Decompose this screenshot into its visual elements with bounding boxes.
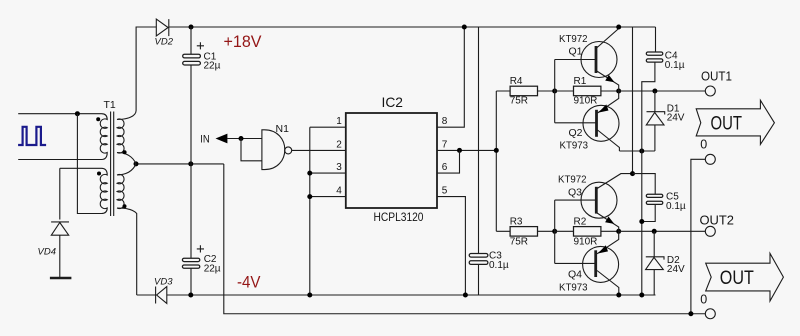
wire IC2 pin 7 bbox=[437, 149, 496, 151]
terminal 0 ch1 bbox=[700, 138, 715, 165]
wire IC2 pins 1-3-4 bus to -4V bbox=[309, 127, 311, 295]
wire -4V feed C4/C5 column bbox=[641, 151, 643, 295]
node junction pin7 / feed bus bbox=[494, 148, 499, 153]
transistor Q3 KT972 bbox=[558, 173, 633, 231]
svg-text:22µ: 22µ bbox=[204, 264, 221, 275]
svg-text:Q2: Q2 bbox=[569, 127, 583, 139]
zener diode D1 24V bbox=[646, 91, 685, 151]
svg-text:0: 0 bbox=[700, 292, 707, 306]
wire IC2 pin 3 bbox=[310, 172, 346, 174]
node junction D1 top bbox=[652, 89, 657, 94]
node B2 junction emitters ch2 bbox=[616, 229, 621, 234]
IC2 pin numbers right bbox=[442, 116, 448, 196]
node junction pin 8 line on +18V rail bbox=[462, 25, 467, 30]
svg-text:OUT: OUT bbox=[720, 268, 754, 289]
wire input line 2 bbox=[18, 159, 101, 161]
wire top +18V rail bbox=[136, 26, 655, 28]
svg-text:R4: R4 bbox=[510, 76, 523, 87]
wire VD4 branch bbox=[59, 168, 61, 277]
wire Q3 base bbox=[555, 199, 597, 201]
svg-text:910R: 910R bbox=[574, 237, 598, 248]
node A junction bases ch1 bbox=[552, 89, 557, 94]
svg-text:HCPL3120: HCPL3120 bbox=[374, 210, 424, 224]
svg-text:0.1µ: 0.1µ bbox=[489, 260, 509, 271]
wire base jumper ch1 bbox=[554, 60, 556, 123]
terminal 0 ch2 bbox=[700, 292, 715, 318]
svg-text:8: 8 bbox=[442, 116, 448, 127]
label +18V bbox=[224, 33, 262, 51]
svg-text:KT973: KT973 bbox=[560, 139, 589, 151]
svg-text:5: 5 bbox=[442, 186, 448, 197]
svg-text:KT972: KT972 bbox=[558, 173, 587, 185]
svg-text:75R: 75R bbox=[510, 95, 528, 106]
wire N1 output to IC2 pin 2 bbox=[292, 149, 346, 151]
capacitor C3 0.1u bbox=[469, 27, 509, 295]
logic gate N1 bbox=[262, 123, 292, 170]
node junction Q1 collector on +18V rail bbox=[616, 25, 621, 30]
IN arrow bbox=[216, 134, 228, 144]
svg-text:22µ: 22µ bbox=[204, 61, 221, 72]
svg-text:VD2: VD2 bbox=[155, 37, 174, 48]
wire -4V rail bbox=[137, 294, 656, 296]
wire N1 input jumper bbox=[241, 139, 262, 161]
resistor R3 75R bbox=[496, 216, 554, 247]
wire OUT1 node line bbox=[619, 90, 706, 92]
IC2 HCPL3120 bbox=[346, 94, 437, 224]
node junction input line 1 bbox=[75, 111, 80, 116]
svg-text:OUT1: OUT1 bbox=[701, 70, 732, 84]
transformer T1 bbox=[60, 27, 137, 296]
svg-text:0.1µ: 0.1µ bbox=[665, 60, 685, 71]
input square wave symbol bbox=[18, 127, 46, 145]
svg-text:0: 0 bbox=[700, 138, 707, 152]
OUT arrow ch1 bbox=[696, 100, 774, 144]
svg-text:0.1µ: 0.1µ bbox=[666, 201, 686, 212]
svg-text:N1: N1 bbox=[276, 123, 290, 135]
wire IC2 pin 8 to +18V bbox=[437, 27, 464, 127]
wire N1 input bbox=[227, 138, 262, 140]
svg-text:Q3: Q3 bbox=[568, 187, 582, 199]
svg-text:VD4: VD4 bbox=[38, 247, 56, 258]
wire 0 common line bbox=[224, 164, 705, 314]
wire IC2 pin 1 bbox=[310, 126, 346, 128]
node junction +18V rail / C1 bbox=[189, 25, 194, 30]
transistor Q2 KT973 bbox=[560, 91, 620, 151]
node junction C5 bottom on -4V column bbox=[639, 219, 644, 224]
node junction Q3 collector / +18V feed bbox=[630, 171, 635, 176]
wire OUT2 node line bbox=[619, 230, 706, 232]
wire IC2 pin 4 bbox=[310, 196, 346, 198]
node junction C4/C5 column on -4V rail bbox=[639, 293, 644, 298]
svg-text:3: 3 bbox=[336, 162, 342, 173]
wire +18V feed to Q3 bbox=[632, 27, 634, 174]
wire Q2 base bbox=[555, 122, 597, 124]
svg-text:24V: 24V bbox=[667, 112, 685, 123]
svg-text:T1: T1 bbox=[104, 99, 116, 111]
node junction pin 3 bbox=[307, 171, 312, 176]
wire IC2 pin 6 bbox=[437, 150, 460, 173]
svg-text:OUT2: OUT2 bbox=[700, 213, 735, 227]
IC2 pin numbers left bbox=[336, 116, 342, 196]
label IN bbox=[200, 134, 210, 146]
wire input line 1 bbox=[18, 113, 101, 115]
svg-text:910R: 910R bbox=[574, 95, 598, 106]
node junction 0 bus on 0 line bbox=[688, 311, 693, 316]
svg-text:-4V: -4V bbox=[237, 274, 261, 292]
diode VD4 bbox=[38, 222, 72, 278]
node junction pin 6-7 bbox=[457, 148, 462, 153]
diode VD3 bbox=[154, 277, 173, 304]
capacitor C4 0.1u bbox=[642, 27, 685, 151]
svg-text:R3: R3 bbox=[510, 216, 523, 227]
svg-text:Q4: Q4 bbox=[568, 268, 582, 280]
svg-text:VD3: VD3 bbox=[154, 277, 173, 288]
svg-text:24V: 24V bbox=[667, 264, 685, 275]
transistor Q4 KT973 bbox=[559, 231, 619, 295]
node junction -4V rail / C2 bbox=[188, 293, 193, 298]
terminal OUT2 bbox=[700, 213, 735, 236]
transistor Q1 KT972 bbox=[559, 27, 619, 91]
capacitor C2 22u bbox=[182, 164, 220, 295]
node junction C4 bottom / Q2 collector bbox=[639, 149, 644, 154]
svg-text:6: 6 bbox=[442, 162, 448, 173]
svg-text:Q1: Q1 bbox=[569, 45, 583, 57]
svg-text:R2: R2 bbox=[574, 216, 587, 227]
wire Q4 base bbox=[555, 262, 596, 264]
capacitor C5 0.1u bbox=[633, 174, 686, 222]
wire IC2 pin 5 to -4V bbox=[437, 197, 465, 295]
node junction bus on -4V rail bbox=[307, 293, 312, 298]
resistor R4 75R bbox=[496, 76, 554, 107]
node junction D2 top bbox=[652, 229, 657, 234]
svg-text:2: 2 bbox=[336, 139, 342, 150]
wire base jumper ch2 bbox=[554, 200, 556, 263]
svg-text:KT972: KT972 bbox=[559, 33, 588, 45]
node junction N1 inputs bbox=[239, 136, 244, 141]
diode VD2 bbox=[155, 19, 174, 47]
node junction Q4 collector on -4V rail bbox=[616, 293, 621, 298]
wire Q2 collector line ch1 bbox=[619, 150, 655, 152]
svg-text:4: 4 bbox=[336, 186, 342, 197]
wire R4-R3 feed bus bbox=[495, 91, 497, 231]
resistor R2 910R bbox=[555, 216, 619, 247]
label -4V bbox=[237, 274, 261, 292]
svg-text:OUT: OUT bbox=[711, 113, 743, 134]
terminal OUT1 bbox=[701, 70, 732, 96]
OUT arrow ch2 bbox=[706, 253, 784, 301]
svg-text:1: 1 bbox=[336, 116, 342, 127]
node junction center tap bbox=[134, 161, 139, 166]
svg-text:IC2: IC2 bbox=[382, 94, 404, 110]
svg-text:75R: 75R bbox=[510, 237, 528, 248]
node B junction emitters ch1 bbox=[616, 89, 621, 94]
node junction pin 4 bbox=[307, 194, 312, 199]
svg-text:IN: IN bbox=[200, 134, 210, 146]
node junction pin 5 line on -4V rail bbox=[463, 293, 468, 298]
node junction C1-C2 on center tap bbox=[188, 161, 193, 166]
svg-text:+18V: +18V bbox=[224, 33, 262, 51]
zener diode D2 24V bbox=[646, 231, 685, 295]
svg-text:R1: R1 bbox=[574, 76, 587, 87]
wire center-tap line bbox=[136, 163, 224, 165]
wire Q1 base bbox=[555, 59, 596, 61]
wire input1 to lower primary bottom bbox=[77, 114, 101, 214]
node A2 junction bases ch2 bbox=[552, 229, 557, 234]
wire 0 ch1 to 0 bus bbox=[691, 159, 705, 313]
svg-text:7: 7 bbox=[442, 139, 448, 150]
capacitor C1 22u bbox=[183, 27, 221, 164]
svg-text:KT973: KT973 bbox=[559, 282, 588, 294]
resistor R1 910R bbox=[555, 76, 619, 107]
